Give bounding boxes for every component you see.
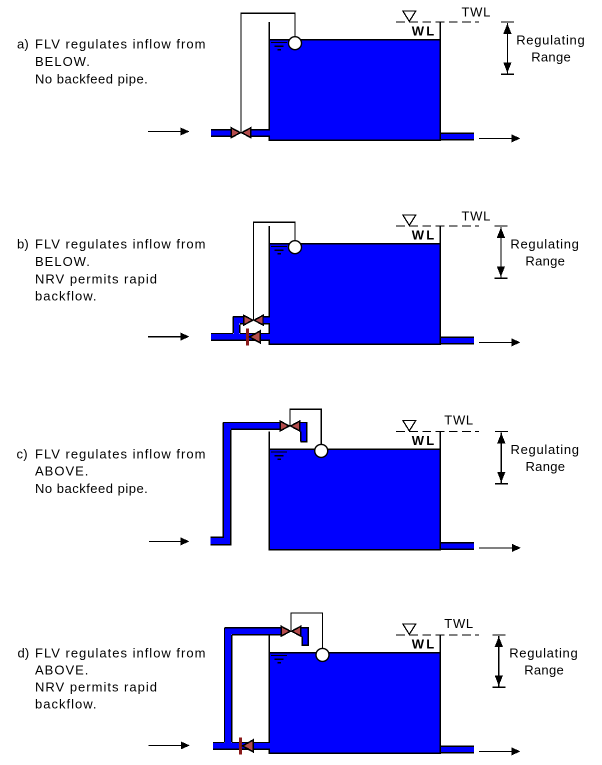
svg-text:Regulating: Regulating <box>509 646 578 661</box>
TWL dashed line <box>396 634 479 636</box>
water level symbol <box>271 42 287 44</box>
svg-text:backflow.: backflow. <box>35 288 97 303</box>
TWL dashed line <box>396 225 479 227</box>
upper branch pipe b (riser to valve) <box>234 317 244 323</box>
svg-text:Range: Range <box>531 49 571 64</box>
water (tank contents) <box>269 652 442 753</box>
TWL dashed line <box>396 431 479 433</box>
tank right wall <box>439 226 441 344</box>
svg-text:BELOW.: BELOW. <box>35 54 91 69</box>
upper branch pipe b (valve to tank) <box>263 317 270 324</box>
svg-text:No backfeed pipe.: No backfeed pipe. <box>35 481 148 496</box>
water surface line <box>269 243 442 245</box>
tank bottom <box>269 139 442 141</box>
regulating range arrow <box>501 21 514 23</box>
svg-text:No backfeed pipe.: No backfeed pipe. <box>35 71 148 86</box>
drop pipe c (discharge above WL) <box>300 423 306 441</box>
svg-text:a): a) <box>17 36 29 51</box>
TWL datum triangle <box>403 624 416 634</box>
svg-text:Range: Range <box>524 662 564 677</box>
svg-text:FLV regulates inflow from: FLV regulates inflow from <box>35 236 206 251</box>
float of FLV <box>316 648 329 661</box>
inlet stub pipe c <box>211 538 232 544</box>
svg-text:NRV permits rapid: NRV permits rapid <box>35 271 158 286</box>
svg-text:Regulating: Regulating <box>516 33 585 48</box>
inflow arrow c <box>149 540 183 542</box>
tank left wall <box>268 226 270 344</box>
NRV d (permits backflow) <box>239 737 242 754</box>
svg-text:TWL: TWL <box>462 208 492 223</box>
tank bottom <box>269 343 442 345</box>
TWL datum triangle <box>403 420 416 430</box>
svg-text:WL: WL <box>412 433 437 448</box>
TWL datum triangle <box>403 215 416 225</box>
svg-text:TWL: TWL <box>444 616 474 631</box>
outflow arrow a <box>479 137 514 139</box>
inflow arrow a <box>148 131 183 133</box>
inflow arrow b <box>148 336 183 338</box>
svg-text:backflow.: backflow. <box>35 696 97 711</box>
svg-text:WL: WL <box>412 637 437 652</box>
supply top pipe c <box>224 423 280 429</box>
tank right wall <box>439 432 441 550</box>
float of FLV <box>315 444 328 457</box>
supply top pipe d <box>225 628 280 634</box>
wire: pilot line b <box>253 222 295 320</box>
inflow pipe b (through NRV position, edge gap at riser) <box>211 334 270 341</box>
regulating range arrow <box>494 225 507 227</box>
TWL datum triangle <box>403 11 416 21</box>
outflow pipe a <box>441 133 474 139</box>
float of FLV <box>289 37 302 50</box>
branch riser pipe b <box>234 317 239 334</box>
wire: pilot line a <box>241 13 295 132</box>
tank left wall <box>268 22 270 140</box>
tank bottom <box>269 549 442 551</box>
drop pipe d (discharge above WL) <box>302 628 309 645</box>
inflow arrow d <box>148 744 183 746</box>
wire: pilot line d <box>291 613 323 649</box>
svg-text:FLV regulates inflow from: FLV regulates inflow from <box>35 446 206 461</box>
svg-text:Regulating: Regulating <box>510 237 579 252</box>
water level symbol <box>271 246 287 248</box>
regulating range arrow <box>495 431 508 433</box>
tank right wall <box>439 22 441 140</box>
tank right wall <box>439 635 441 753</box>
TWL dashed line <box>396 21 479 23</box>
supply riser pipe d <box>225 628 232 743</box>
float of FLV <box>289 241 302 254</box>
supply riser pipe c <box>224 423 231 544</box>
svg-text:ABOVE.: ABOVE. <box>35 662 89 677</box>
inflow pipe a (left of valve) <box>211 130 231 137</box>
svg-text:Range: Range <box>525 253 565 268</box>
svg-text:WL: WL <box>412 24 437 39</box>
outflow pipe d <box>441 746 474 752</box>
water (tank contents) <box>269 449 442 550</box>
outflow pipe c <box>441 543 474 549</box>
FLV isolating valve a <box>231 128 240 138</box>
outflow arrow b <box>479 341 514 343</box>
outflow pipe b <box>441 337 474 343</box>
regulating range arrow <box>492 634 505 636</box>
water surface line <box>269 652 442 654</box>
tank bottom <box>269 752 442 754</box>
water level symbol <box>271 451 287 453</box>
inflow pipe a (valve to tank) <box>251 130 270 137</box>
wire: pilot line c <box>290 409 321 444</box>
svg-text:NRV permits rapid: NRV permits rapid <box>35 679 158 694</box>
svg-text:BELOW.: BELOW. <box>35 254 91 269</box>
svg-text:Range: Range <box>526 459 566 474</box>
FLV isolating valve d <box>281 626 290 636</box>
FLV isolating valve b <box>244 315 253 325</box>
water (tank contents) <box>269 39 442 140</box>
tank left wall <box>268 432 270 550</box>
FLV isolating valve c <box>280 421 289 431</box>
svg-text:b): b) <box>17 236 29 251</box>
svg-text:FLV regulates inflow from: FLV regulates inflow from <box>35 36 206 51</box>
svg-text:d): d) <box>18 645 30 660</box>
svg-text:WL: WL <box>412 228 437 243</box>
svg-text:TWL: TWL <box>444 413 474 428</box>
svg-text:ABOVE.: ABOVE. <box>35 463 89 478</box>
inflow pipe d (through NRV position, edge gap at riser) <box>213 743 270 750</box>
water surface line <box>269 39 442 41</box>
svg-text:FLV regulates inflow from: FLV regulates inflow from <box>35 645 206 660</box>
svg-text:c): c) <box>17 446 28 461</box>
water (tank contents) <box>269 243 442 344</box>
svg-text:TWL: TWL <box>462 4 492 19</box>
outflow arrow c <box>479 547 514 549</box>
tank left wall <box>268 635 270 753</box>
outflow arrow d <box>479 750 514 752</box>
water level symbol <box>271 655 287 657</box>
NRV b (permits backflow) <box>246 328 249 345</box>
svg-text:Regulating: Regulating <box>511 442 580 457</box>
water surface line <box>269 448 442 450</box>
